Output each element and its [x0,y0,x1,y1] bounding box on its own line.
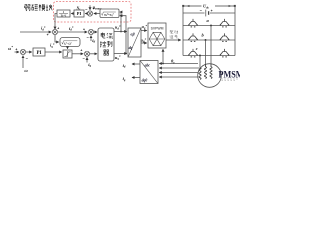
junction u_q tap [125,53,127,55]
block filter 1/(Ts+1) [57,10,70,17]
svg-text:c: c [196,46,198,51]
block voltage magnitude sqrt(ud^2+uq^2) [100,9,119,18]
svg-text:iq: iq [88,62,91,68]
svg-text:Udc: Udc [203,4,210,10]
svg-text:b: b [202,32,205,37]
svg-text:−: − [85,7,88,12]
svg-text:uq*: uq* [115,55,121,61]
wire sqrt block to limiter [67,47,69,49]
wire u_beta [141,42,147,44]
wire feedback u_q to sqrt block [120,16,126,54]
svg-text:Ts+1: Ts+1 [61,13,67,17]
svg-text:abc: abc [145,64,151,68]
svg-text:id*: id* [41,26,46,32]
block dq to alphabeta transform [128,28,141,57]
label 驱动信号 [170,31,178,39]
wire id sum to id error node [58,31,88,33]
current sense wire ic [159,76,198,78]
svg-text:id: id [123,63,126,69]
svg-text:PI: PI [37,51,42,56]
inverter rails [183,7,235,56]
svg-text:−: − [26,55,29,60]
block PI (field weakening) [74,10,84,17]
wire feedback u_d to sqrt block [120,12,121,32]
wire speed reference [15,51,20,53]
svg-text:αβ: αβ [131,33,135,37]
wire drive signal to inverter [166,39,181,41]
junction u_d tap [120,31,122,33]
inverter phase leg a [183,25,235,27]
svg-text:+: + [57,26,59,30]
svg-text:id: id [92,38,95,44]
summing junction i_d error [88,29,93,34]
inverter phase leg c [183,55,235,57]
svg-text:id*: id* [69,26,74,32]
svg-text:ω*: ω* [8,45,13,51]
junction phase b [205,39,207,41]
summing junction u_s [87,11,92,16]
svg-text:+: + [80,48,82,52]
wire i_d feedback [90,36,92,41]
wire theta_e [159,63,198,65]
svg-text:−: − [83,56,86,61]
wire u_q* [114,53,127,55]
inverter DC bus annotation U_dc [182,5,236,7]
summing junction i_d [52,29,57,34]
svg-text:−: − [87,34,90,39]
wire iq error to controller [90,53,97,55]
svg-text:PMSM: PMSM [219,69,241,80]
wire u_smax input [89,5,91,10]
current sense wire ia [159,67,200,69]
svg-text:iq: iq [123,76,126,82]
wire branch to sqrt limit block [55,35,59,42]
wire summing node to PI [85,13,87,15]
summing junction speed [20,49,25,54]
junction theta branch [162,63,164,65]
svg-text:uα*: uα* [142,24,148,30]
wire speed feedback [22,56,24,68]
svg-text:+: + [47,33,49,37]
block SVPWM [148,23,166,48]
wire phase b to motor [205,40,207,64]
svg-text:a: a [207,18,210,23]
block sqrt(ismax^2-id^2) [60,38,80,47]
block ASR PI [33,48,45,56]
field-weakening module dashed box [54,2,132,23]
wire u_alpha [141,30,147,32]
svg-text:+: + [83,28,85,32]
wire i_d* reference input [20,31,51,33]
wire phase a to motor [210,26,212,65]
wire sqrt block to summing node [94,13,100,15]
wire i_q output [132,77,140,79]
wire i_d output [132,63,140,65]
wire field-weakening output to id summing node [55,14,57,30]
wire limiter to iq error node [72,53,83,55]
svg-text:uβ*: uβ* [141,38,147,44]
svg-text:ud*: ud* [115,25,121,31]
wire phase c to motor [199,56,201,68]
DC source [206,10,209,17]
wire ASR to limiter [45,51,62,53]
svg-text:+: + [211,9,213,13]
svg-text:iq*: iq* [50,43,55,49]
svg-text:is2−id2: is2−id2 [64,41,72,46]
svg-text:SVPWM: SVPWM [151,27,164,31]
junction phase c [199,55,201,57]
wire u_d* [114,31,127,33]
motor PMSM [198,64,222,88]
wire theta to SVPWM [162,49,164,63]
wire i_q feedback [86,57,88,62]
inverter phase leg b [183,39,235,41]
block abc to dq transform [140,61,158,84]
svg-text:PI: PI [77,11,82,16]
wire speed error to ASR [26,51,32,53]
junction phase a [210,25,212,27]
svg-text:ω: ω [24,68,28,73]
block limiter [63,50,72,58]
current sense wire ib [159,72,198,74]
wire id error to controller [94,31,97,33]
summing junction i_q error [84,51,89,56]
label 弱磁模块 [25,4,53,11]
svg-text:+: + [15,47,17,51]
block current controller 电流控制器 [98,28,114,61]
svg-text:dq: dq [129,46,133,50]
wire PI to filter [71,13,74,15]
label motor subtitle [221,79,238,81]
svg-text:dq0: dq0 [142,78,148,82]
